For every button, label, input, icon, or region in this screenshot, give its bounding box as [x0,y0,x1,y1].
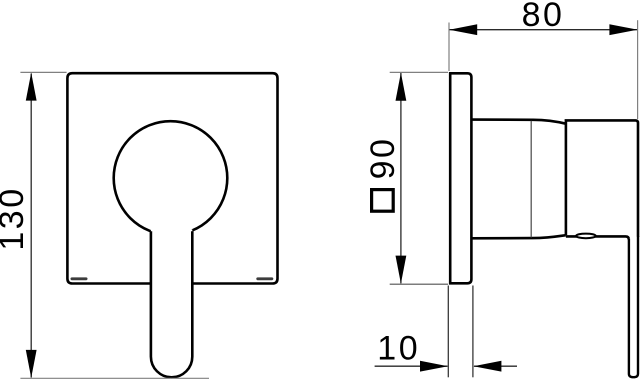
dim 90 dimension line [400,73,402,283]
dim 90 top extension line [390,71,448,73]
dim 90 arrow down [396,256,407,284]
dim 130 top extension line [20,71,66,73]
right screw slot [256,277,273,280]
dim 10 leader line left [375,365,448,367]
wall plate side view [450,73,471,283]
svg-text:90: 90 [364,137,402,180]
dim 10 left extension line [447,286,449,378]
dim 10 arrow pointing left [473,361,501,372]
svg-text:130: 130 [0,186,31,250]
dim 10 arrow pointing right [420,361,448,372]
lever handle front view [151,230,192,378]
wall plate front view [67,73,277,283]
left screw slot [71,277,88,280]
handle cap bottom edge [566,236,629,239]
dim 90 bottom extension line [390,283,448,285]
dim 130 arrow up [26,73,37,101]
handle circle front view [114,121,228,235]
dim 80 arrow left [449,24,477,35]
dim 80 dimension line [450,29,638,31]
lens detail on handle bottom [576,234,596,239]
valve sleeve top outline [471,120,565,124]
dim 80 right extension line [637,20,639,119]
lever pin side view [629,236,638,377]
dim 10 leader line right [474,365,517,367]
dim 80 arrow right [609,24,637,35]
dim 10 right extension line [472,286,474,378]
dim 90 square symbol [372,190,394,212]
valve sleeve bottom outline [471,235,565,238]
dim 130 dimension line [30,74,32,378]
svg-text:10: 10 [377,330,420,368]
svg-text:80: 80 [522,0,565,34]
dim 80 left extension line [448,23,450,72]
dim 130 arrow down [26,350,37,378]
dim 130 bottom extension line [20,377,209,379]
sleeve divider line [530,121,532,238]
handle cap side view [566,120,638,237]
dim 90 arrow up [396,73,407,101]
